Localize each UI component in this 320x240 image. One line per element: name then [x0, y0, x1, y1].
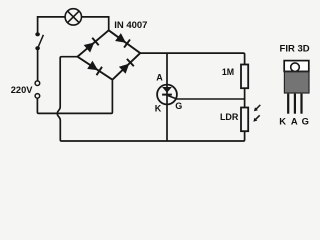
- terminal lower 220V: [35, 94, 40, 99]
- svg-text:IN 4007: IN 4007: [114, 20, 147, 31]
- diode D3: [87, 61, 98, 70]
- wire top rail with corners: [38, 17, 109, 33]
- svg-text:A: A: [156, 72, 163, 82]
- wire DC-plus rail to 1M: [140, 53, 244, 64]
- LDR light arrow 2: [255, 115, 260, 120]
- switch S1: [35, 32, 43, 50]
- TO-220 leg K: [287, 94, 289, 114]
- LDR light arrow 1: [255, 105, 260, 110]
- diode D4: [119, 64, 129, 74]
- TO-220 body: [284, 72, 309, 93]
- wire SCR anode-cathode vertical: [166, 53, 168, 141]
- TO-220 leg A: [294, 94, 296, 114]
- resistor 1M body: [241, 65, 248, 89]
- TO-220 mounting hole: [291, 63, 300, 72]
- terminal upper 220V: [35, 81, 40, 86]
- svg-text:A: A: [291, 115, 298, 126]
- TO-220 tab: [284, 61, 309, 72]
- wire gate: [166, 95, 244, 99]
- TO-220 leg G: [300, 94, 302, 114]
- wire DC-minus: bridge left vertex, crossover jog, bottom rail, to LDR bottom: [57, 57, 244, 141]
- svg-text:1M: 1M: [222, 67, 234, 77]
- wire neutral: lower terminal to bridge bottom vertex: [37, 80, 112, 113]
- LDR body: [241, 108, 248, 132]
- wire switch to upper terminal: [37, 50, 39, 81]
- svg-text:LDR: LDR: [220, 112, 239, 122]
- svg-text:K: K: [155, 103, 162, 113]
- diode D2: [115, 33, 126, 43]
- svg-text:G: G: [302, 115, 309, 126]
- svg-text:FIR 3D: FIR 3D: [280, 43, 310, 54]
- svg-text:K: K: [279, 115, 286, 126]
- svg-text:220V: 220V: [11, 85, 34, 95]
- SCR triangle: [162, 87, 172, 93]
- lamp: [65, 9, 81, 25]
- SCR cathode bar: [162, 94, 172, 96]
- bridge rectifier diamond: [78, 30, 141, 79]
- wire 1M to LDR: [244, 88, 246, 107]
- diode D1: [84, 43, 95, 53]
- svg-text:G: G: [175, 101, 182, 111]
- SCR circle: [157, 85, 177, 105]
